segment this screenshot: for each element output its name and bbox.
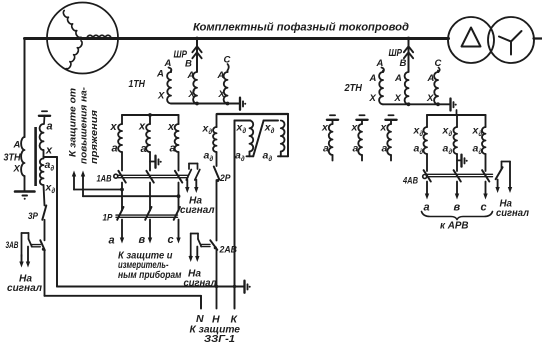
svg-text:х: х — [138, 121, 146, 133]
svg-text:к АРВ: к АРВ — [440, 220, 469, 232]
svg-text:х: х — [351, 122, 359, 134]
svg-text:а: а — [141, 143, 147, 155]
svg-text:3АВ: 3АВ — [6, 240, 19, 251]
svg-text:А: А — [369, 73, 377, 84]
svg-text:в: в — [139, 234, 146, 246]
svg-text:х: х — [167, 121, 175, 133]
svg-text:2Р: 2Р — [219, 173, 231, 184]
svg-text:1АВ: 1АВ — [97, 174, 112, 185]
svg-text:1Р: 1Р — [103, 213, 114, 224]
svg-text:Х: Х — [394, 93, 402, 104]
svg-text:А: А — [187, 70, 195, 81]
svg-text:а: а — [424, 202, 430, 214]
svg-text:А: А — [427, 73, 435, 84]
svg-text:Х: Х — [157, 91, 165, 102]
svg-text:а: а — [382, 143, 388, 155]
svg-text:3ТН: 3ТН — [4, 153, 22, 164]
svg-text:а: а — [47, 121, 53, 133]
svg-text:х: х — [45, 145, 53, 157]
svg-text:х: х — [321, 122, 329, 134]
svg-text:Комплектный пофазный токопро: Комплектный пофазный токопровод — [193, 22, 409, 34]
svg-text:а: а — [112, 143, 118, 155]
svg-text:А: А — [13, 140, 21, 151]
svg-text:повышения на-: повышения на- — [79, 87, 90, 164]
svg-text:а: а — [109, 235, 115, 247]
svg-text:Х: Х — [218, 89, 226, 100]
svg-text:сигнал: сигнал — [7, 283, 43, 294]
svg-text:ным приборам: ным приборам — [118, 269, 182, 281]
svg-text:сигнал: сигнал — [180, 205, 215, 216]
svg-text:2АВ: 2АВ — [219, 245, 238, 256]
svg-text:с: с — [168, 234, 174, 246]
svg-text:х: х — [380, 122, 388, 134]
svg-text:1ТН: 1ТН — [129, 79, 146, 90]
svg-text:Х: Х — [13, 164, 21, 175]
svg-text:В: В — [185, 59, 192, 70]
svg-text:в: в — [454, 202, 461, 214]
svg-text:сигнал: сигнал — [496, 208, 530, 219]
svg-text:а: а — [170, 143, 176, 155]
svg-text:3Р: 3Р — [28, 211, 39, 222]
svg-text:А: А — [156, 69, 164, 80]
svg-text:В: В — [400, 58, 407, 69]
svg-text:К защите от: К защите от — [68, 87, 79, 157]
svg-text:х: х — [110, 121, 118, 133]
svg-text:а: а — [323, 143, 329, 155]
svg-text:пряжения: пряжения — [89, 110, 100, 164]
svg-text:4АВ: 4АВ — [402, 176, 418, 187]
svg-text:с: с — [481, 202, 487, 214]
svg-text:Х: Х — [188, 89, 196, 100]
svg-text:ЗЗГ-1: ЗЗГ-1 — [204, 333, 235, 343]
svg-text:2ТН: 2ТН — [344, 83, 363, 94]
svg-text:А: А — [394, 73, 402, 84]
svg-text:А: А — [217, 70, 225, 81]
svg-text:Х: Х — [369, 93, 377, 104]
svg-text:а: а — [353, 143, 359, 155]
svg-text:Х: Х — [426, 93, 434, 104]
